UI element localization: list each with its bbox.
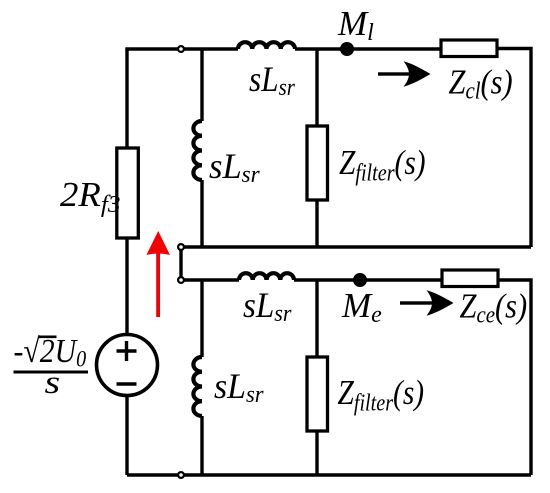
current direction arrow at Zce xyxy=(400,290,454,315)
label Ml xyxy=(337,4,374,46)
wire Zfilter bottom branch lower xyxy=(315,431,318,475)
terminal (open circle) top rail xyxy=(178,46,184,52)
wire Zfilter top branch upper xyxy=(315,49,318,126)
label source value numerator -sqrt(2)U0 xyxy=(14,332,87,372)
wire top rail (coil to Zcl box) xyxy=(295,47,441,50)
inductor L1 sLsr (top series coil) xyxy=(238,42,295,49)
wire upper-network left branch (top) xyxy=(200,49,203,121)
label 2Rf3 xyxy=(60,175,120,218)
terminal (open circle) middle lower xyxy=(178,277,184,283)
label sLsr (top series) xyxy=(249,60,295,100)
svg-text:Zfilter(s): Zfilter(s) xyxy=(338,373,425,416)
svg-text:Zfilter(s): Zfilter(s) xyxy=(339,143,426,186)
svg-text:sLsr: sLsr xyxy=(249,60,295,100)
label sLsr (bottom series) xyxy=(243,286,292,326)
terminal (open circle) middle upper xyxy=(178,244,184,250)
svg-text:2Rf3: 2Rf3 xyxy=(60,175,120,218)
label source denominator s xyxy=(45,363,61,400)
impedance Zfilter(s) box (upper) xyxy=(307,126,328,200)
label source radical vinculum xyxy=(39,335,57,338)
voltage source V1 circle xyxy=(97,335,158,396)
wire top-right corner down to middle rail xyxy=(497,49,531,248)
wire Zfilter bottom branch upper xyxy=(315,280,318,357)
current arrow (red, upward) xyxy=(146,231,170,317)
impedance Zce(s) box xyxy=(442,270,498,287)
wire middle rail (lower) coil to Zce box xyxy=(294,278,442,281)
inductor L3 sLsr (bottom series coil) xyxy=(239,273,294,280)
svg-text:s: s xyxy=(45,363,61,400)
svg-text:sLsr: sLsr xyxy=(209,146,260,188)
wire bottom rail xyxy=(127,473,531,476)
resistor 2Rf3 box xyxy=(117,148,139,238)
wire Zfilter top branch lower xyxy=(315,200,318,247)
wire source to bottom rail xyxy=(125,396,128,476)
label Me xyxy=(341,286,382,328)
wire bottom-right corner down to bottom rail xyxy=(498,280,531,475)
wire resistor to source xyxy=(125,238,128,336)
wire lower-network left branch (bottom) xyxy=(200,416,203,475)
svg-text:Me: Me xyxy=(341,286,382,328)
inductor L4 sLsr (bottom shunt coil) xyxy=(193,357,202,416)
label Zcl(s) xyxy=(449,64,513,104)
label sLsr (bottom shunt) xyxy=(214,366,264,408)
terminal (open circle) bottom rail xyxy=(178,472,184,478)
voltage source plus sign xyxy=(117,341,137,361)
wire left branch x=127 (top rail to resistor) xyxy=(125,49,128,149)
wire middle rail (upper, y=247) xyxy=(181,245,531,248)
inductor L2 sLsr (top shunt coil) xyxy=(193,121,202,180)
label Zce(s) xyxy=(460,288,528,328)
svg-text:sLsr: sLsr xyxy=(243,286,292,326)
label source fraction bar xyxy=(14,371,89,374)
svg-text:sLsr: sLsr xyxy=(214,366,264,408)
label Zfilter(s) upper xyxy=(339,143,426,186)
impedance Zfilter(s) box (lower) xyxy=(307,357,328,431)
wire terminal link (x=181 between middle rails) xyxy=(179,247,182,280)
current direction arrow at Zcl xyxy=(378,61,431,86)
wire lower-network left branch (top) xyxy=(200,280,203,357)
voltage source minus sign xyxy=(117,382,137,386)
wire top rail (left segment to series inductor) xyxy=(127,47,238,49)
impedance Zcl(s) box xyxy=(441,40,497,57)
svg-text:Ml: Ml xyxy=(337,4,374,46)
svg-text:Zcl(s): Zcl(s) xyxy=(449,64,513,104)
label sLsr (top shunt) xyxy=(209,146,260,188)
node Ml (filled dot) xyxy=(340,42,354,56)
node Me (filled dot) xyxy=(353,273,367,287)
svg-text:Zce(s): Zce(s) xyxy=(460,288,528,328)
wire upper-network left branch (bottom) xyxy=(200,180,203,247)
label Zfilter(s) lower xyxy=(338,373,425,416)
wire middle rail (lower, y=280) left segment xyxy=(181,278,239,281)
